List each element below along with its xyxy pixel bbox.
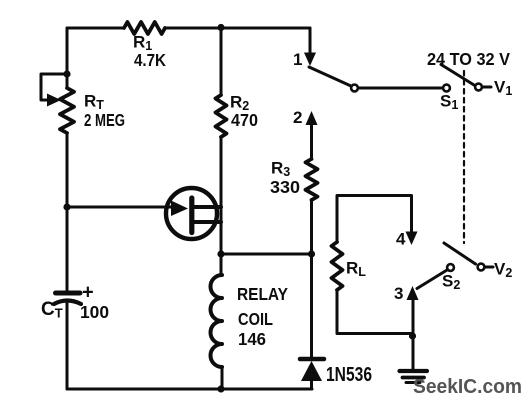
svg-text:1: 1 (293, 50, 302, 69)
svg-text:COIL: COIL (238, 309, 273, 329)
svg-text:100: 100 (80, 302, 109, 322)
svg-text:470: 470 (231, 110, 258, 130)
svg-text:2 MEG: 2 MEG (84, 110, 125, 130)
svg-text:SeekIC.com: SeekIC.com (413, 376, 522, 398)
svg-text:RELAY: RELAY (237, 284, 288, 304)
svg-text:4.7K: 4.7K (134, 50, 166, 70)
svg-text:3: 3 (394, 284, 403, 303)
svg-text:1N536: 1N536 (326, 364, 372, 386)
svg-text:+: + (82, 282, 94, 304)
svg-text:2: 2 (293, 108, 302, 127)
svg-text:330: 330 (270, 177, 300, 197)
svg-text:146: 146 (238, 329, 266, 349)
svg-text:24 TO 32 V: 24 TO 32 V (427, 49, 510, 69)
svg-text:4: 4 (396, 230, 406, 249)
